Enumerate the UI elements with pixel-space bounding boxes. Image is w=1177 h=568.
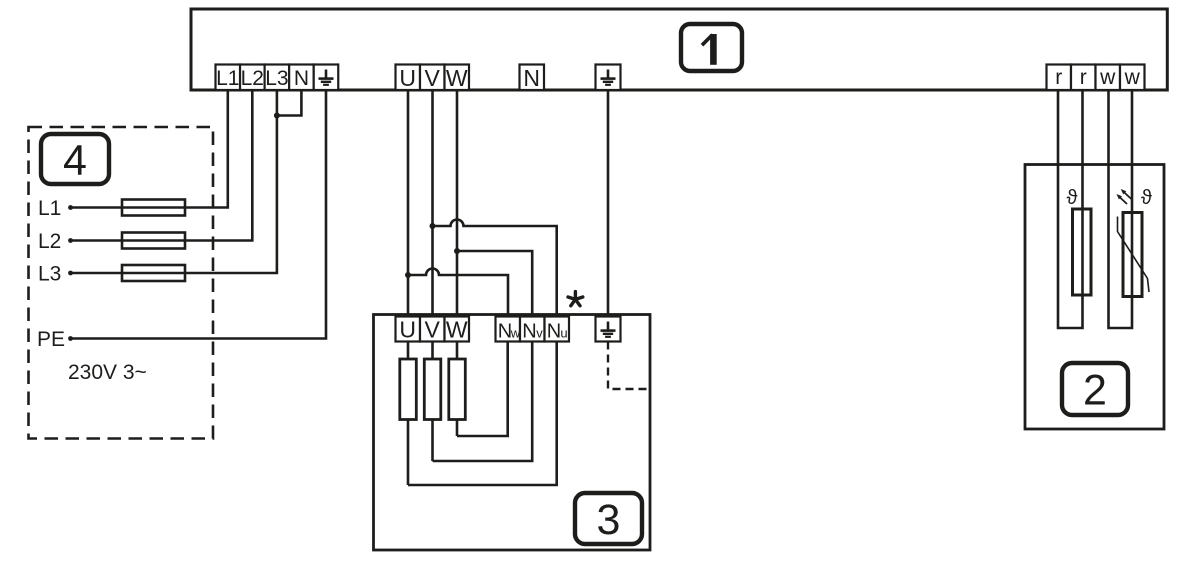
wire r1 sensor loop bbox=[1058, 90, 1083, 328]
svg-text:L1: L1 bbox=[38, 197, 61, 220]
wire W element to Nw bbox=[457, 342, 508, 437]
wire W to Nv bbox=[457, 251, 532, 317]
arrows (PTC) bbox=[1117, 189, 1132, 204]
svg-text:N: N bbox=[547, 321, 561, 343]
terminal W (unit3) bbox=[445, 317, 470, 343]
terminal W (unit1) bbox=[445, 65, 470, 92]
terminal Nu (unit3) bbox=[545, 317, 570, 343]
svg-text:2: 2 bbox=[1083, 367, 1107, 415]
junction U branch bbox=[405, 272, 411, 278]
svg-text:u: u bbox=[560, 326, 567, 341]
label 1 bbox=[681, 24, 742, 71]
unit 1 (control unit) outline bbox=[191, 9, 1167, 90]
junction W branch bbox=[454, 248, 460, 254]
fuse on L3 bbox=[122, 265, 185, 281]
svg-text:W: W bbox=[446, 317, 468, 343]
terminal V (unit3) bbox=[420, 317, 445, 343]
heater element V bbox=[424, 342, 441, 462]
terminal r2 bbox=[1071, 65, 1096, 91]
junction V branch bbox=[430, 223, 436, 229]
svg-text:V: V bbox=[425, 317, 441, 343]
node L1 supply dot bbox=[68, 205, 73, 210]
svg-text:V: V bbox=[425, 65, 441, 91]
terminal earth (left block) bbox=[314, 65, 339, 91]
label 2 bbox=[1062, 363, 1128, 415]
node L2 supply dot bbox=[68, 238, 73, 243]
svg-text:w: w bbox=[1124, 66, 1141, 89]
wire V to Nu (hop over W) bbox=[433, 220, 557, 317]
svg-text:v: v bbox=[536, 326, 543, 341]
svg-text:ϑ: ϑ bbox=[1141, 187, 1152, 209]
svg-text:L3: L3 bbox=[38, 263, 61, 286]
wire V (unit1 V down to unit3 V) bbox=[431, 90, 434, 317]
asterisk marker bbox=[568, 292, 583, 306]
svg-text:L3: L3 bbox=[265, 67, 288, 90]
svg-text:L2: L2 bbox=[241, 67, 264, 90]
wire earth (unit1 earth down to unit3 earth) bbox=[607, 90, 610, 317]
wire w1 sensor loop bbox=[1109, 90, 1133, 328]
node PE supply dot bbox=[68, 336, 73, 341]
wire V element to Nv bbox=[433, 342, 533, 462]
wire W (unit1 W down to unit3 W) bbox=[456, 90, 459, 317]
label 4 bbox=[41, 134, 109, 185]
svg-text:L2: L2 bbox=[38, 230, 61, 253]
terminal L2 bbox=[240, 65, 265, 91]
unit 3 (heater unit) outline bbox=[374, 315, 651, 551]
svg-text:N: N bbox=[294, 67, 309, 90]
terminal earth (unit1 middle) bbox=[596, 65, 621, 91]
unit 4 (mains supply) dashed outline bbox=[29, 127, 214, 439]
dashed earth wire in unit 3 bbox=[608, 342, 650, 390]
terminal V (unit1) bbox=[420, 65, 445, 92]
terminal Nw (unit3) bbox=[496, 317, 521, 343]
wire U to Nw (hop over V) bbox=[408, 269, 508, 318]
heater element W bbox=[449, 342, 466, 437]
terminal w2 bbox=[1120, 65, 1145, 91]
svg-text:L1: L1 bbox=[216, 67, 239, 90]
wire L2 (supply to terminal L2) bbox=[71, 90, 253, 241]
junction L3/N bbox=[274, 113, 280, 119]
terminal r1 bbox=[1047, 65, 1072, 91]
wire L1 (supply to terminal L1) bbox=[71, 90, 228, 208]
terminal N (unit1 middle) bbox=[520, 65, 545, 92]
node L3 supply dot bbox=[68, 271, 73, 276]
wire L3 (supply to terminal L3) bbox=[71, 90, 277, 273]
wire U element to Nu bbox=[408, 342, 557, 486]
terminal Nv (unit3) bbox=[520, 317, 545, 343]
svg-text:N: N bbox=[522, 321, 536, 343]
svg-text:r: r bbox=[1080, 66, 1087, 89]
sensor R2 (PTC temperature sensor) bbox=[1123, 213, 1142, 297]
svg-text:4: 4 bbox=[63, 137, 87, 185]
fuse on L2 bbox=[122, 233, 185, 249]
terminal N (left block) bbox=[289, 65, 314, 91]
PTC diagonal stroke bbox=[1118, 217, 1150, 293]
label 3 bbox=[575, 493, 642, 544]
terminal U (unit3) bbox=[396, 317, 421, 343]
terminal w1 bbox=[1096, 65, 1121, 91]
svg-text:W: W bbox=[446, 65, 468, 91]
svg-text:U: U bbox=[399, 317, 416, 343]
fuse on L1 bbox=[122, 200, 185, 216]
svg-text:PE: PE bbox=[37, 328, 65, 351]
wire U (unit1 U down to unit3 U) bbox=[407, 90, 410, 317]
sensor R1 (temperature sensor) bbox=[1073, 209, 1092, 295]
ground symbol (unit3) bbox=[601, 322, 616, 337]
heater element U bbox=[400, 342, 417, 486]
wire PE (supply to earth terminal) bbox=[71, 90, 327, 339]
svg-text:N: N bbox=[523, 65, 540, 91]
svg-text:230V 3~: 230V 3~ bbox=[68, 361, 147, 384]
svg-text:ϑ: ϑ bbox=[1067, 187, 1078, 209]
terminal L3 bbox=[265, 65, 290, 91]
unit 2 (sensor unit) outline bbox=[1025, 165, 1164, 430]
terminal U (unit1) bbox=[396, 65, 421, 92]
wire N-L3 jumper bbox=[277, 90, 302, 116]
svg-text:3: 3 bbox=[597, 496, 621, 544]
svg-text:w: w bbox=[1099, 66, 1116, 89]
terminal L1 bbox=[216, 65, 241, 91]
svg-text:U: U bbox=[399, 65, 416, 91]
svg-text:r: r bbox=[1055, 66, 1062, 89]
ground symbol (unit1 middle) bbox=[601, 70, 616, 85]
terminal earth (unit3) bbox=[596, 317, 621, 342]
ground symbol (left block) bbox=[319, 70, 334, 85]
